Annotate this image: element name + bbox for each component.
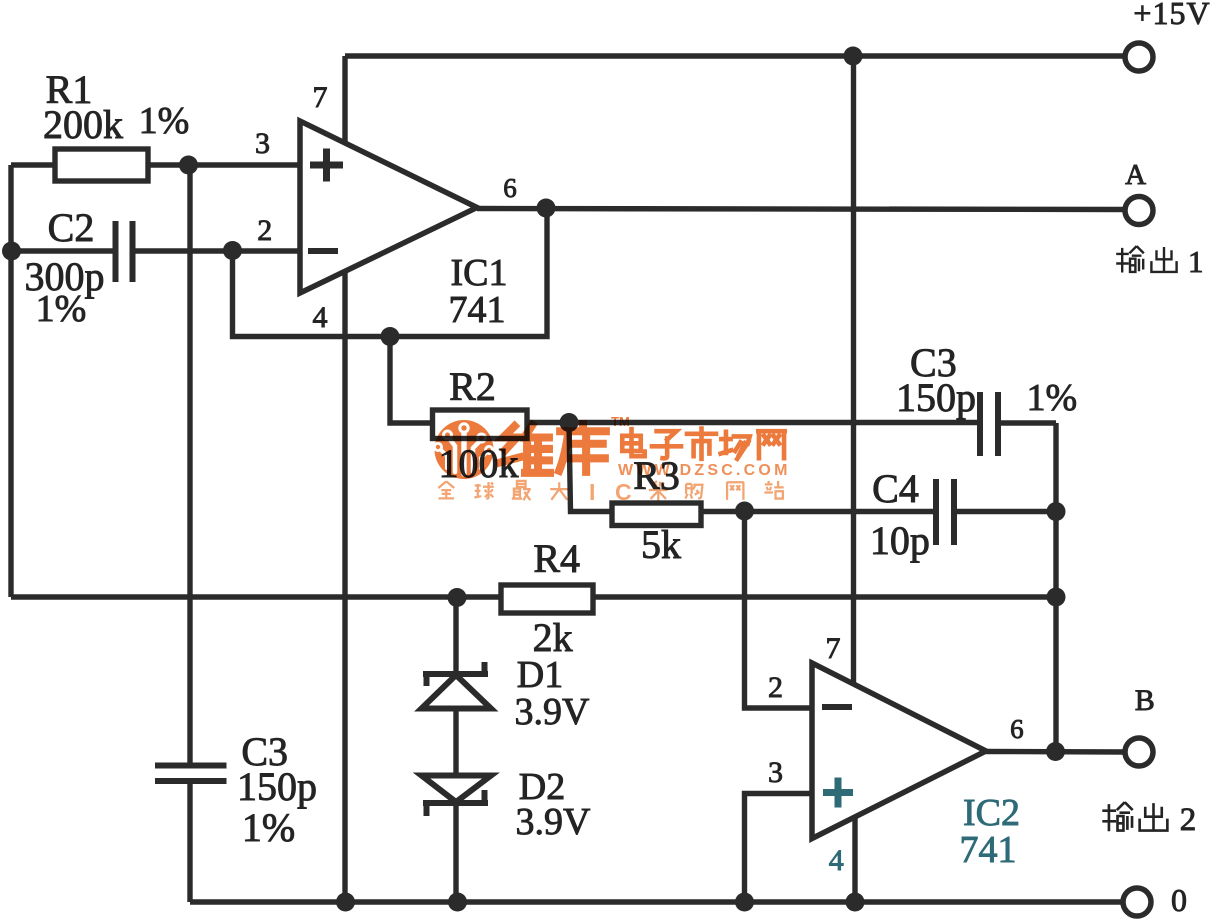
pin 2 label IC1 (257, 214, 272, 247)
label C4 10p (870, 466, 930, 563)
terminal A output1 (1125, 159, 1153, 225)
junction IC2 output (1046, 742, 1065, 761)
svg-text:WWW.DZSC.COM: WWW.DZSC.COM (618, 462, 791, 479)
svg-text:I: I (589, 479, 595, 505)
label C3 150p 1% bottom (237, 729, 317, 850)
terminal B output2 (1125, 684, 1155, 766)
wire IC1 pin7 riser (342, 56, 347, 143)
wire IC1 pin4 riser through to bottom rail (342, 271, 347, 902)
wire inverting input node (pin 2) (11, 248, 300, 253)
watermark brand 维库 (500, 424, 606, 473)
wire R2 to C3 run (527, 420, 1056, 426)
wire pin2 node down and feedback run (233, 208, 548, 337)
label IC1 (449, 252, 508, 331)
label 输出1 (1116, 244, 1203, 279)
zener diode D1 3.9V (422, 662, 492, 709)
junction R1 right / pin3 (179, 156, 198, 175)
IC2 plus input sign (823, 778, 853, 808)
label D1 3.9V (515, 654, 591, 733)
junction bottom rail zener (448, 893, 467, 912)
capacitor C3 150p 1% bottom left (155, 766, 227, 782)
junction bottom rail IC1 pin4 (336, 893, 355, 912)
label R1 200k 1% (43, 67, 189, 147)
wire between zeners (453, 709, 458, 776)
wire zener branch lower (453, 803, 458, 902)
capacitor C4 10p (936, 479, 954, 545)
pin 7 label IC1 (313, 81, 328, 114)
resistor R3 5k (612, 503, 701, 526)
resistor R2 100k (433, 410, 528, 439)
junction IC1 output (537, 199, 556, 218)
resistor R4 2k (501, 585, 593, 613)
watermark 电子市场网 (622, 429, 784, 459)
IC2 minus input sign (822, 704, 852, 710)
label C2 300p 1% (25, 205, 105, 330)
pin 2 label IC2 (768, 671, 783, 704)
watermark slogan 全球最大IC采购网站 (438, 479, 783, 505)
op-amp U1 IC1 741 triangle (300, 121, 477, 293)
wire R3 branch (569, 423, 612, 512)
label D2 3.9V (516, 766, 592, 843)
junction R4 left / zener branch (448, 588, 467, 607)
zener diode D2 3.9V (422, 776, 492, 817)
IC1 minus input sign (308, 248, 338, 254)
wire IC2 output to terminal B (986, 749, 1125, 755)
junction bottom rail IC2 pin3 (735, 893, 754, 912)
label 输出2 (1102, 802, 1196, 838)
pin 4 label IC1 (313, 301, 328, 334)
capacitor C2 300p (116, 221, 133, 282)
wire IC2 pin2 link (745, 511, 813, 708)
junction bottom rail IC2 pin4 (846, 893, 865, 912)
pin 6 label IC2 (1010, 714, 1024, 744)
junction R2 right (560, 413, 579, 432)
wire IC2 pin7 column (851, 56, 856, 685)
wire left column from R1 node down to R4 line (8, 165, 13, 597)
label IC2 741 (960, 792, 1021, 871)
pin 3 label IC2 (768, 756, 783, 789)
op-amp U2 IC2 741 triangle (812, 663, 986, 839)
junction inverting input (223, 241, 242, 260)
wire IC1 output to terminal A (477, 209, 1125, 210)
wire R4 line full width (11, 594, 1056, 599)
wire IC2 pin3 link to bottom rail (745, 794, 813, 903)
pin 7 label IC2 (826, 632, 841, 665)
wire C3 bottom column (187, 165, 192, 902)
pin 6 label IC1 (503, 173, 517, 203)
label R4 2k (533, 536, 580, 660)
label R2 100k (439, 364, 519, 486)
wire right column C3 corner down to IC2 output (1053, 423, 1058, 752)
wire noninverting input node (pin 3) (11, 162, 300, 167)
junction top rail to IC2 pin7 (844, 47, 863, 66)
junction C2 left at column (2, 242, 21, 261)
watermark www.dzsc.com (618, 462, 791, 479)
wire +15V supply rail (345, 53, 1125, 58)
svg-text:C: C (615, 479, 632, 505)
wire R2 branch down (390, 337, 433, 424)
pin 4 label IC2 (829, 844, 844, 877)
watermark TM mark (611, 414, 630, 429)
capacitor C3 150p 1% top (980, 392, 998, 456)
pin 3 label IC1 (255, 127, 270, 160)
wire zener branch upper (453, 598, 458, 675)
terminal +15V (1125, 0, 1211, 71)
wire 0V bottom rail (190, 899, 1123, 904)
IC1 plus input sign (310, 149, 343, 182)
wire R3 to C4 run (701, 509, 1056, 514)
svg-text:TM: TM (611, 414, 630, 429)
junction C4 right column (1047, 502, 1066, 521)
junction R4 right column (1047, 588, 1066, 607)
junction feedback to R2 (381, 327, 400, 346)
label R3 5k (633, 453, 681, 567)
label C3 150p 1% (896, 340, 1077, 420)
junction R3 right / IC2 pin2 (735, 502, 754, 521)
watermark logo circle dzsc (434, 420, 493, 479)
terminal 0 ground (1123, 882, 1187, 918)
wire IC2 pin4 to bottom rail (852, 817, 857, 902)
resistor R1 (55, 149, 148, 181)
